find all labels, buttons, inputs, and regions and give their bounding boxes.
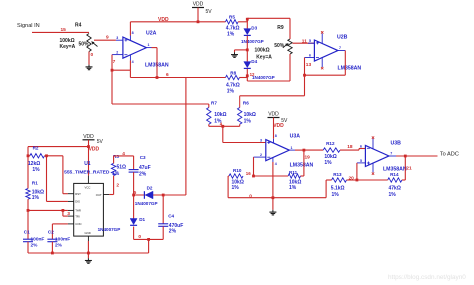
wire R12 to U3B xyxy=(340,149,359,151)
svg-text:2%: 2% xyxy=(55,242,63,248)
svg-text:DIS: DIS xyxy=(75,200,80,204)
wire U3A pin4 to ground xyxy=(272,162,274,210)
wire R5 to junction xyxy=(238,21,247,23)
wire to U3A plus input xyxy=(222,126,224,142)
diode D4 xyxy=(246,50,248,62)
svg-text:5: 5 xyxy=(360,159,362,163)
junction dot THR xyxy=(27,209,30,212)
pin OUT stub xyxy=(103,194,109,196)
junction dot node 12 xyxy=(246,74,249,77)
wire ground tap xyxy=(235,49,248,51)
op-amp U3B xyxy=(365,145,389,166)
wire THR xyxy=(28,209,68,211)
wire VDD rail to R2/R1 xyxy=(28,146,89,148)
wire net 13 vertical xyxy=(304,58,306,96)
bottom segment D1/C4 xyxy=(134,238,164,240)
svg-text:VDD: VDD xyxy=(273,123,284,129)
svg-text:3: 3 xyxy=(116,36,118,40)
op-amp U3A xyxy=(266,140,290,161)
svg-text:R1: R1 xyxy=(32,180,38,185)
svg-text:R6: R6 xyxy=(243,100,249,105)
ground rail right xyxy=(228,197,326,199)
wire VDD stem xyxy=(197,8,199,22)
svg-text:To ADC: To ADC xyxy=(440,152,459,158)
svg-text:1N4007GP: 1N4007GP xyxy=(241,39,264,44)
svg-text:C4: C4 xyxy=(168,213,174,218)
pin 5 stub U2B xyxy=(308,42,314,44)
svg-text:5: 5 xyxy=(309,39,311,43)
wire C4 to bottom segment xyxy=(162,226,164,239)
svg-text:100mF: 100mF xyxy=(55,236,70,242)
wire OUT to R3 xyxy=(109,194,113,196)
svg-text:Key=A: Key=A xyxy=(60,44,76,50)
wire R13 to R14 xyxy=(347,179,357,181)
junction dot D3/D4/ground xyxy=(246,49,249,52)
ground below U3A xyxy=(272,210,274,212)
svg-text:2%: 2% xyxy=(169,228,177,234)
svg-text:0: 0 xyxy=(249,193,252,199)
svg-text:C1: C1 xyxy=(24,230,30,235)
wire D1 to bottom segment xyxy=(133,227,135,240)
ground rail bottom left xyxy=(28,252,149,254)
svg-text:4.7kΩ: 4.7kΩ xyxy=(226,25,240,31)
wire C2 to rail xyxy=(51,242,53,253)
svg-text:RST: RST xyxy=(75,192,81,196)
svg-text:U3A: U3A xyxy=(290,134,301,140)
wire net6 to R8 xyxy=(130,77,225,79)
pin TRI stub xyxy=(68,215,74,217)
junction dot bottom segment xyxy=(147,238,150,241)
svg-text:1%: 1% xyxy=(227,88,235,94)
pin RST stub xyxy=(68,193,74,195)
wire R7/R6 bottoms xyxy=(208,124,210,126)
wire net7 to R7 xyxy=(112,103,209,105)
junction dot node 19 xyxy=(303,149,306,152)
pin 3 stub U2A xyxy=(116,39,123,41)
wire U3B feedback xyxy=(404,156,406,180)
wire R13 to ground rail xyxy=(326,179,332,181)
svg-text:2: 2 xyxy=(116,50,118,54)
wire U3B output to ADC xyxy=(396,155,438,157)
svg-text:D2: D2 xyxy=(147,185,153,190)
svg-text:1%: 1% xyxy=(32,195,40,201)
svg-text:6: 6 xyxy=(360,144,362,148)
svg-text:13: 13 xyxy=(306,62,312,68)
svg-text:19: 19 xyxy=(305,155,311,161)
svg-text:GND: GND xyxy=(85,231,91,235)
wire C3 to node 5 xyxy=(133,172,135,195)
junction dot node 5 xyxy=(132,194,135,197)
svg-text:100kΩ: 100kΩ xyxy=(60,38,75,44)
svg-text:4: 4 xyxy=(122,151,125,157)
pin 1 stub U2A xyxy=(146,47,151,49)
svg-text:U2A: U2A xyxy=(146,30,157,36)
svg-text:47kΩ: 47kΩ xyxy=(389,185,401,191)
pin CON stub xyxy=(68,223,74,225)
wire R14 to node 20 xyxy=(357,179,388,181)
pin 8 stub U2A xyxy=(129,36,131,41)
svg-text:5V: 5V xyxy=(97,139,104,145)
svg-text:7: 7 xyxy=(113,59,116,65)
junction dot node 16 xyxy=(252,175,255,178)
svg-text:5.1kΩ: 5.1kΩ xyxy=(331,185,345,191)
svg-text:R12: R12 xyxy=(326,141,335,146)
pin DIS stub xyxy=(68,200,74,202)
svg-text:8: 8 xyxy=(275,134,277,138)
wire GND pin to ground xyxy=(87,241,89,258)
svg-text:10kΩ: 10kΩ xyxy=(244,112,256,118)
svg-text:2: 2 xyxy=(260,153,262,157)
junction dot R5/D3 xyxy=(246,18,249,21)
op-amp U2A xyxy=(123,37,146,58)
svg-text:2%: 2% xyxy=(139,172,147,178)
svg-text:R10: R10 xyxy=(233,168,242,173)
svg-text:LM358AN: LM358AN xyxy=(338,65,362,71)
wire R3 top to C3 xyxy=(113,156,115,163)
junction dot VDD rail 555 xyxy=(87,145,90,148)
svg-text:U2B: U2B xyxy=(337,34,348,40)
svg-text:CON: CON xyxy=(75,222,81,226)
svg-text:1N4007GP: 1N4007GP xyxy=(252,75,275,80)
svg-text:R14: R14 xyxy=(390,172,399,177)
svg-text:5V: 5V xyxy=(206,9,213,15)
wire net 13 horizontal xyxy=(240,95,305,97)
svg-text:VCC: VCC xyxy=(85,185,91,189)
svg-text:51Ω: 51Ω xyxy=(117,164,127,170)
svg-text:THR: THR xyxy=(75,209,81,213)
pin 7 stub U2B xyxy=(338,50,345,52)
svg-text:8: 8 xyxy=(132,31,134,35)
wire output to R12 xyxy=(304,149,323,151)
wire R1 to THR junction xyxy=(27,199,29,239)
wire to RST pin xyxy=(62,156,64,194)
svg-text:OUT: OUT xyxy=(96,193,102,197)
svg-text:1%: 1% xyxy=(112,171,120,177)
svg-text:9: 9 xyxy=(106,34,109,40)
op-amp U2B xyxy=(314,40,338,61)
wire to DIS pin xyxy=(46,156,48,202)
wire TRI tap xyxy=(62,210,64,216)
wire node5 link to U2A output net xyxy=(163,194,186,196)
wire U3A feedback vertical xyxy=(303,150,305,176)
pin GND stub xyxy=(87,236,89,241)
wire D3 cathode to junction xyxy=(246,36,248,50)
ground at D3/D4 junction xyxy=(234,52,236,54)
svg-text:16: 16 xyxy=(246,171,251,176)
wire segment to ground rail xyxy=(148,239,150,253)
wire U2A inverting loop xyxy=(111,55,113,104)
svg-text:1%: 1% xyxy=(332,192,340,198)
pin 8 stub U3A xyxy=(273,139,275,144)
svg-text:U1: U1 xyxy=(84,161,91,167)
pin 4 stub U2A xyxy=(129,55,131,61)
ground below R4 xyxy=(88,65,90,67)
svg-text:LM358AN: LM358AN xyxy=(290,162,314,168)
svg-text:10kΩ: 10kΩ xyxy=(324,154,336,160)
pin THR stub xyxy=(68,209,74,211)
svg-text:D1: D1 xyxy=(139,217,145,222)
svg-text:4: 4 xyxy=(275,162,277,166)
svg-text:0: 0 xyxy=(138,234,141,240)
svg-text:1%: 1% xyxy=(232,185,240,191)
svg-text:47uF: 47uF xyxy=(139,165,151,171)
svg-text:VDD: VDD xyxy=(89,146,100,152)
junction dot R2 left xyxy=(27,154,30,157)
pin 7 stub U3B xyxy=(389,155,396,157)
wire R10 to ground rail xyxy=(227,175,230,177)
U3B NC power stubs xyxy=(372,139,374,149)
wire U2A output stub down xyxy=(152,47,158,49)
svg-text:1%: 1% xyxy=(389,192,397,198)
wire R4 wiper to U2A xyxy=(94,39,116,41)
svg-text:4: 4 xyxy=(132,60,134,64)
pin VCC stub xyxy=(87,176,89,184)
svg-text:R7: R7 xyxy=(211,100,217,105)
pin 4 stub U3A xyxy=(272,158,274,163)
wire R4 bottom to ground xyxy=(88,52,90,65)
svg-text:2: 2 xyxy=(116,183,119,189)
svg-text:1%: 1% xyxy=(227,31,235,37)
pin 5 stub U3B xyxy=(357,162,366,164)
svg-text:50%: 50% xyxy=(274,43,285,49)
svg-text:1%: 1% xyxy=(32,167,40,173)
svg-text:18: 18 xyxy=(347,144,353,150)
svg-text:100nF: 100nF xyxy=(31,236,45,242)
wire VDD stem to U3A xyxy=(273,118,275,139)
svg-text:21: 21 xyxy=(406,166,412,172)
U2B NC power stubs xyxy=(321,34,323,44)
svg-text:D3: D3 xyxy=(251,26,257,31)
svg-text:TRI: TRI xyxy=(75,214,80,218)
wire D4 cathode to node 12 xyxy=(246,69,248,76)
svg-text:VDD: VDD xyxy=(268,112,279,118)
wire node20 to U3B plus xyxy=(356,163,358,180)
svg-text:7: 7 xyxy=(339,46,341,50)
wire CON pin to C2 xyxy=(52,223,68,225)
pin 6 stub U2B xyxy=(305,57,315,59)
svg-text:Key=A: Key=A xyxy=(256,54,272,60)
svg-text:2%: 2% xyxy=(31,242,39,248)
junction dot TRI tap xyxy=(62,209,65,212)
svg-text:100kΩ: 100kΩ xyxy=(255,48,270,54)
svg-text:VDD: VDD xyxy=(83,134,94,140)
svg-text:C3: C3 xyxy=(140,155,146,160)
wire node 12 to R9 bottom xyxy=(246,76,248,81)
svg-text:R5: R5 xyxy=(229,14,235,19)
wire rail to R9 xyxy=(247,17,290,19)
svg-text:U3B: U3B xyxy=(391,141,402,147)
wire U3A output xyxy=(295,149,304,151)
junction dot DIS drop xyxy=(45,154,48,157)
svg-text:https://blog.csdn.net/glayn0: https://blog.csdn.net/glayn0 xyxy=(388,274,466,281)
wire R10/R11 junction to U3A minus xyxy=(254,175,289,177)
svg-text:C2: C2 xyxy=(48,230,54,235)
svg-text:7: 7 xyxy=(390,152,392,156)
junction dot U2B feedback xyxy=(303,74,306,77)
svg-text:R9: R9 xyxy=(277,25,284,31)
svg-text:1: 1 xyxy=(148,43,150,47)
junction dot node 4 xyxy=(221,125,224,128)
svg-text:R13: R13 xyxy=(333,172,342,177)
svg-text:1%: 1% xyxy=(289,185,297,191)
svg-text:12kΩ: 12kΩ xyxy=(28,161,40,167)
svg-text:1: 1 xyxy=(291,146,293,150)
svg-text:1N4007GP: 1N4007GP xyxy=(98,227,121,232)
wire C1 to rail xyxy=(27,242,29,253)
ground below 555 xyxy=(87,258,89,260)
svg-text:6: 6 xyxy=(309,53,311,57)
svg-text:50%: 50% xyxy=(79,41,90,47)
wire R8 to node 12 xyxy=(240,77,248,79)
svg-text:R4: R4 xyxy=(75,22,82,28)
diode D3 xyxy=(246,19,248,28)
svg-text:555_TIMER_RATED: 555_TIMER_RATED xyxy=(64,169,110,175)
svg-text:10kΩ: 10kΩ xyxy=(214,112,226,118)
wire VDD rail xyxy=(130,21,225,23)
wire signal input xyxy=(32,31,89,33)
wire R9 wiper to U2B xyxy=(293,42,315,44)
wire U2B output feedback xyxy=(344,51,346,76)
svg-text:15: 15 xyxy=(61,27,67,33)
wire R2 right to RST xyxy=(45,155,63,157)
svg-text:1%: 1% xyxy=(244,118,252,124)
svg-text:3: 3 xyxy=(260,139,262,143)
svg-text:0: 0 xyxy=(91,52,94,58)
junction dot node 20 xyxy=(356,179,359,182)
svg-text:R2: R2 xyxy=(33,146,39,151)
svg-text:VDD: VDD xyxy=(193,2,204,8)
svg-text:1N4007GP: 1N4007GP xyxy=(135,201,158,206)
svg-text:11: 11 xyxy=(302,39,307,45)
pin 1 stub U3A xyxy=(289,149,295,151)
junction dot output xyxy=(156,76,159,79)
junction dot U3B output xyxy=(404,155,407,158)
svg-text:1%: 1% xyxy=(324,160,332,166)
svg-text:Signal IN: Signal IN xyxy=(17,23,40,29)
wire VDD stem 555 xyxy=(88,140,90,176)
junction dot D2 right xyxy=(162,194,165,197)
pin 2 stub U3A xyxy=(254,156,266,158)
pin 2 stub U2A xyxy=(112,54,123,56)
